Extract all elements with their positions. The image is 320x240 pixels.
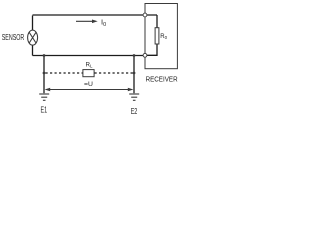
node junction dot left-top — [43, 54, 46, 57]
terminal bottom open circle — [143, 53, 147, 57]
ground E2 — [129, 94, 139, 100]
svg-text:SENSOR: SENSOR — [2, 33, 25, 42]
wire sensor top lead — [32, 16, 34, 31]
wire top horizontal — [33, 14, 158, 16]
wire dashed U measurement left — [46, 72, 83, 74]
svg-text:RL: RL — [86, 63, 93, 69]
arrow I0 current direction — [76, 20, 98, 24]
sensor SOURCE symbol circle-X — [28, 30, 38, 45]
node junction dot left-dashed — [43, 72, 46, 75]
ground E1 — [39, 94, 49, 100]
terminal top open circle — [143, 13, 147, 17]
svg-text:E2: E2 — [131, 106, 138, 116]
wire dashed U measurement right — [95, 72, 134, 74]
wire sensor bottom lead — [32, 45, 34, 55]
wire right vertical to E2 — [133, 56, 135, 94]
wire receiver internal bottom — [147, 44, 157, 55]
resistor R0 body — [155, 28, 159, 44]
wire left vertical to E1 — [43, 56, 45, 94]
svg-text:=U: =U — [84, 81, 93, 88]
receiver box — [145, 4, 177, 69]
wire bottom horizontal — [33, 55, 146, 57]
node junction dot right-dashed — [133, 72, 136, 75]
svg-text:R0: R0 — [160, 34, 167, 40]
node junction dot right-top — [133, 54, 136, 57]
arrow U double-headed — [45, 88, 134, 91]
wire receiver internal top — [156, 15, 158, 28]
resistor RL body — [83, 70, 94, 77]
svg-text:E1: E1 — [41, 104, 48, 114]
svg-text:RECEIVER: RECEIVER — [146, 74, 178, 83]
